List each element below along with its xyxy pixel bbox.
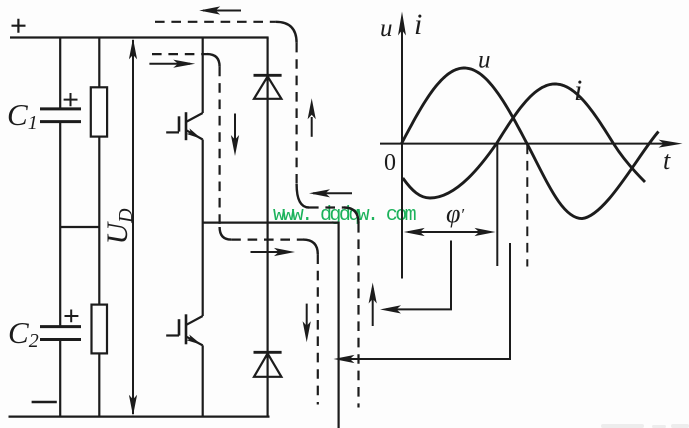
arrow current direction mid-right (left) xyxy=(309,189,352,197)
wire current path 1 (dashed outer loop) xyxy=(155,22,359,408)
diode VD1 (upper) xyxy=(254,75,282,99)
faint cropped watermark remnant bottom right xyxy=(601,424,689,428)
node zero-crossing marker (solid, at i rising zero) xyxy=(496,145,498,267)
node zero-crossing marker (dashed, at u falling zero) xyxy=(526,145,528,267)
C1 polarity + xyxy=(64,93,78,106)
wire resistor branch lower xyxy=(98,353,100,416)
C2 polarity + xyxy=(65,310,79,323)
axis horizontal t xyxy=(380,140,683,148)
wire IGBT branch middle xyxy=(202,140,204,317)
wire top rail xyxy=(10,36,269,38)
arrow current direction mid (right) xyxy=(251,248,296,256)
wire capacitor branch middle xyxy=(59,123,61,326)
diode VD2 (lower) xyxy=(254,352,282,377)
wire resistor branch middle xyxy=(98,137,100,305)
svg-text:0: 0 xyxy=(384,150,396,176)
arrow current direction lower dashed (down) xyxy=(303,304,311,343)
wire resistor branch upper xyxy=(98,38,100,88)
capacitor C2 xyxy=(40,327,81,340)
node - (negative DC bus label) xyxy=(32,401,57,404)
svg-text:u: u xyxy=(478,47,491,74)
wire current path 2 (dashed inner loop) xyxy=(152,54,318,404)
arrow current direction load branch (up) xyxy=(369,283,377,327)
arrow current direction top-left (left) xyxy=(199,6,241,14)
svg-text:i: i xyxy=(414,8,422,41)
wire IGBT branch upper xyxy=(202,38,204,114)
arrow current direction inner-top (right) xyxy=(149,60,195,68)
curve u xyxy=(402,68,659,219)
voltage arrow UD xyxy=(129,38,137,415)
wire timing link right (L with arrow) xyxy=(334,243,511,363)
axis vertical u/i xyxy=(398,12,406,279)
wire output midpoint to load xyxy=(203,223,339,428)
wire diode branch xyxy=(267,38,269,417)
transistor Q1 (upper IGBT) xyxy=(166,112,203,140)
resistor R2 xyxy=(92,305,108,354)
wire timing link left (L with arrow) xyxy=(380,241,451,314)
wire capacitor midpoint link xyxy=(60,226,99,228)
capacitor C1 xyxy=(40,109,81,122)
arrow current direction right bus (up) xyxy=(308,98,316,137)
resistor R1 xyxy=(91,87,107,136)
arrow current direction beside Q1 (down) xyxy=(231,114,239,157)
transistor Q2 (lower IGBT) xyxy=(166,314,203,345)
svg-text:u: u xyxy=(380,15,393,42)
wire bottom rail xyxy=(9,416,270,418)
curve i xyxy=(403,84,645,198)
wire capacitor branch lower xyxy=(59,341,61,417)
dimension arrow phi xyxy=(404,228,496,236)
wire capacitor branch upper xyxy=(59,38,61,109)
svg-text:i: i xyxy=(574,74,582,107)
svg-text:t: t xyxy=(663,146,671,175)
node + (positive DC bus label) xyxy=(12,19,26,33)
wire IGBT branch lower xyxy=(202,345,204,416)
